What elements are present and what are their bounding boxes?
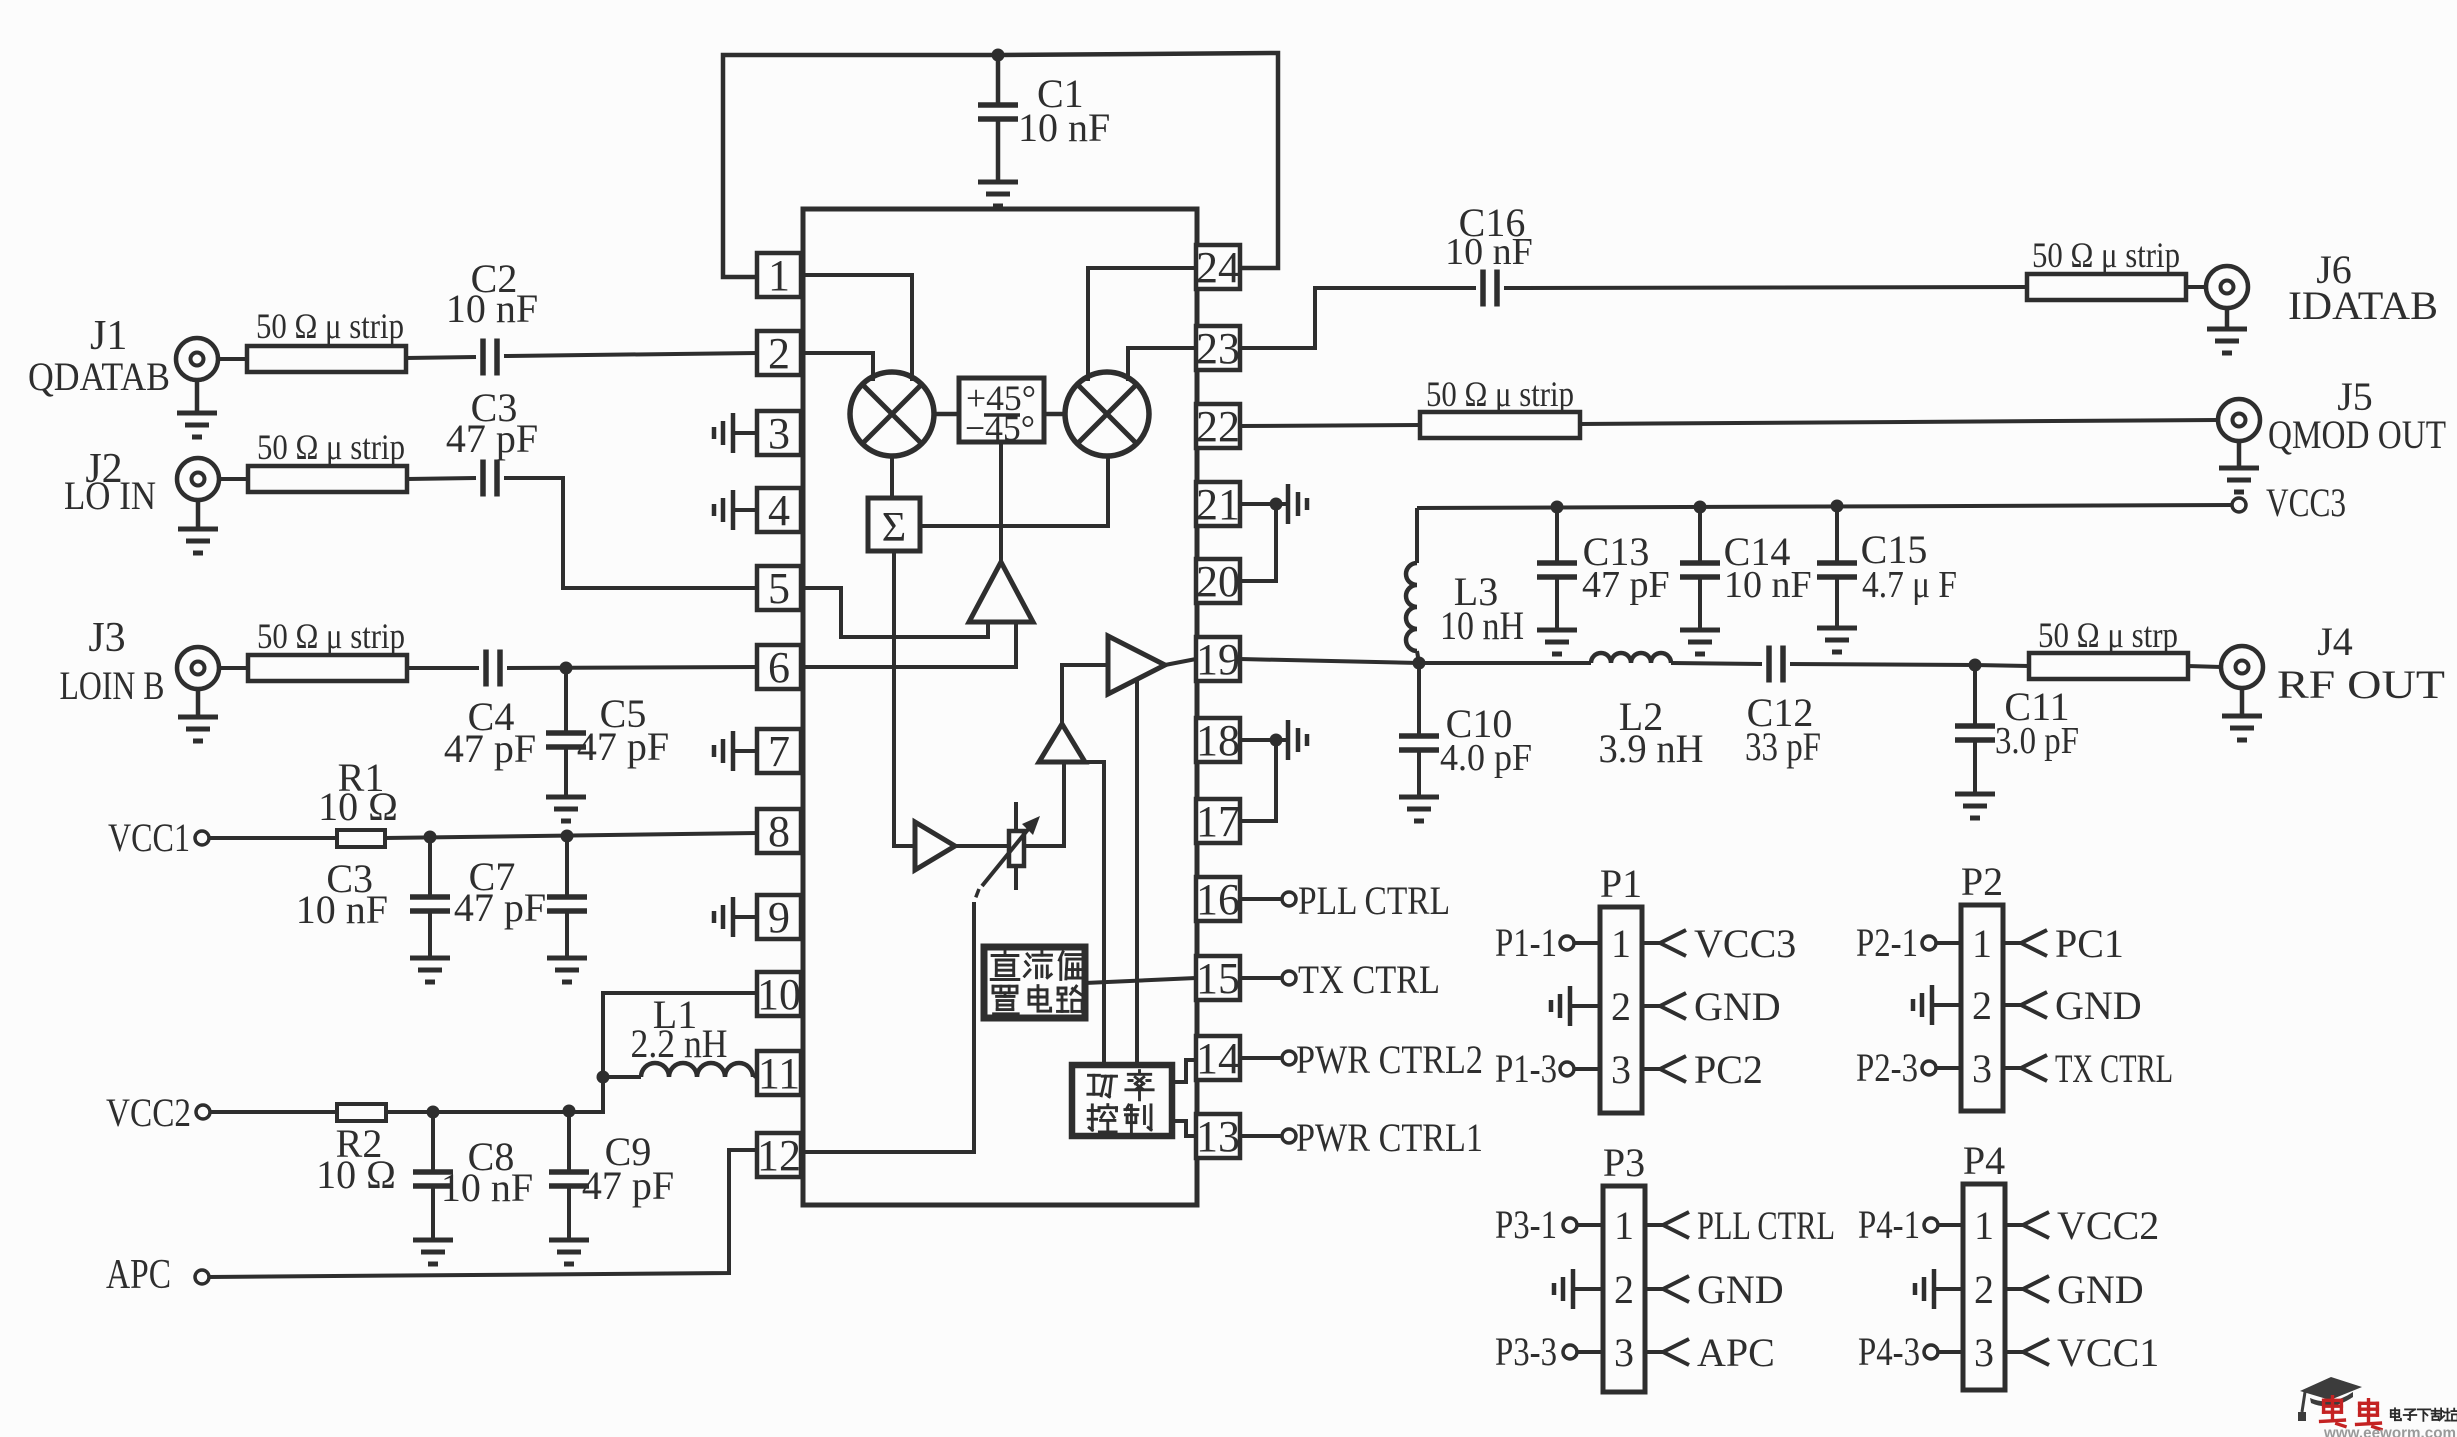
svg-text:50 Ω μ strip: 50 Ω μ strip [257,616,405,656]
svg-text:50 Ω μ strip: 50 Ω μ strip [256,306,404,346]
capacitor C11 [1973,665,1977,726]
svg-text:1: 1 [768,251,790,300]
svg-text:8: 8 [768,807,790,856]
svg-text:2.2 nH: 2.2 nH [631,1021,728,1066]
svg-text:P1-3: P1-3 [1495,1046,1557,1091]
svg-text:GND: GND [2057,1267,2144,1312]
svg-text:2: 2 [1972,983,1992,1028]
capacitor C1 [996,55,1001,105]
wire pin19 to L3/C10 junction [1240,659,1419,663]
wire C4 to pin 6 [507,667,757,668]
node VCC2 [2005,1223,2023,1227]
mixer U1a [850,372,934,456]
wire pin6 to LO amp [801,622,1016,667]
watermark logo eeworm [2300,1377,2362,1400]
node junction C11 [1969,659,1982,672]
pin 24 [1196,245,1240,289]
wire APC to pin 12 [209,1150,757,1277]
capacitor C14 [1698,507,1702,563]
svg-text:P4-3: P4-3 [1858,1329,1920,1374]
node PC2 [1642,1067,1660,1071]
svg-text:GND: GND [1697,1267,1784,1312]
capacitor C13 [1555,507,1559,563]
node junction pin21 [1270,498,1283,511]
wire microstrip to C4 [407,666,479,670]
wire VCC2 to R2 [210,1110,337,1114]
ground under J4 [2240,688,2245,714]
inductor L2 3.9 nH [1591,653,1671,663]
net PLL CTRL terminal [1240,897,1282,901]
capacitor C3 bypass [428,837,432,897]
pin 13 [1196,1114,1240,1158]
wire L2 to C12 [1671,663,1762,664]
microstrip 50ohm J3 line [248,655,407,681]
wire phase shifter to mixer U1b [1044,412,1065,417]
wire C16 to microstrip J6 [1504,287,2027,288]
svg-text:24: 24 [1196,243,1240,292]
svg-text:1: 1 [1974,1203,1994,1248]
node VCC1 [2005,1350,2023,1354]
wire power control to pin 13 [1172,1121,1196,1136]
wire pin23 to mixer U1b [1128,348,1196,381]
svg-text:3.0 pF: 3.0 pF [1995,720,2079,762]
wire sigma down to A4 [894,551,915,846]
node junction VCC1/C3 [424,831,437,844]
svg-text:14: 14 [1196,1034,1240,1083]
wire C12 to C11 junction [1790,664,1975,665]
net PWR CTRL1 terminal [1240,1134,1282,1138]
wire phase shifter to LO amp [999,442,1003,564]
wire junction to L2 [1419,661,1591,665]
svg-text:P3-3: P3-3 [1495,1329,1557,1374]
node GND [2005,1287,2023,1291]
svg-text:QDATAB: QDATAB [28,354,170,399]
svg-text:P3-1: P3-1 [1495,1202,1557,1247]
svg-text:P1-1: P1-1 [1495,920,1557,965]
svg-text:6: 6 [768,643,790,692]
ground under C15 [1817,626,1857,631]
ground under C3 bypass [410,956,450,961]
pin 16 [1196,877,1240,921]
node junction pin18 [1270,734,1283,747]
capacitor C2 [480,339,486,376]
pin 8 [757,809,801,853]
svg-text:50 Ω μ strp: 50 Ω μ strp [2038,615,2178,655]
node junction VCC1/C7 [561,830,574,843]
svg-text:10 nF: 10 nF [296,887,388,932]
svg-text:VCC3: VCC3 [2266,480,2346,525]
svg-text:VCC2: VCC2 [2057,1203,2159,1248]
svg-text:23: 23 [1196,324,1240,373]
pin 12 [757,1133,801,1177]
op-amp A2 output amp [1108,636,1165,694]
ground at P4 pin 2 [1934,1287,1963,1291]
svg-text:18: 18 [1196,716,1240,765]
ground under C8 [413,1238,453,1243]
svg-text:4.0 pF: 4.0 pF [1440,737,1532,779]
microstrip 50ohm J6 line [2027,274,2186,300]
svg-text:15: 15 [1196,954,1240,1003]
pin 5 [757,566,801,610]
svg-text:J3: J3 [88,615,125,661]
pin 2 [757,331,801,375]
ground under J5 [2237,441,2242,466]
svg-text:IDATAB: IDATAB [2288,283,2438,328]
connector J4 RF OUT [2221,646,2263,688]
wire J3 to microstrip [219,666,248,670]
ground at pin 9 [733,915,757,919]
svg-text:GND: GND [2055,983,2142,1028]
svg-text:19: 19 [1196,635,1240,684]
capacitor C5 [564,668,568,733]
ground under C10 [1399,795,1439,800]
svg-text:21: 21 [1196,480,1240,529]
svg-text:10 Ω: 10 Ω [316,1152,396,1197]
wire sigma to mixer U1b bottom [920,456,1108,526]
wire pin1 to mixer U1a [801,275,912,381]
svg-text:22: 22 [1196,402,1240,451]
op-amp A3 driver [1039,724,1085,762]
wire gain control to pin 12 [801,902,974,1152]
microstrip 50ohm J2 line [248,466,407,492]
connector J5 QMOD OUT [2218,399,2260,441]
capacitor C8 [431,1112,435,1172]
svg-text:LO IN: LO IN [64,473,156,518]
svg-text:J1: J1 [90,313,127,359]
svg-text:Σ: Σ [882,505,906,551]
wire pin24 to mixer U1b [1088,268,1196,381]
node GND [1642,1004,1660,1008]
ground under J1 [195,380,200,411]
pin 18 [1196,718,1240,762]
wire top rail to pin 24 [998,53,1278,268]
svg-text:J4: J4 [2317,619,2353,664]
pin 10 [757,972,801,1016]
wire J1 to microstrip [218,357,247,361]
ground at P2 pin 2 [1932,1003,1961,1007]
svg-text:PC1: PC1 [2055,921,2124,966]
svg-text:PLL CTRL: PLL CTRL [1697,1203,1835,1248]
wire microstrip to J5 [1580,420,2217,424]
capacitor C3 series [480,460,486,497]
node junction VCC2/C9 [563,1105,576,1118]
svg-text:47 pF: 47 pF [446,416,538,461]
node PC1 [2003,941,2021,945]
wire pin5 to LO amp [801,588,988,637]
wire A2 to pin 19 [1165,659,1196,665]
svg-text:9: 9 [768,893,790,942]
pin 1 [757,253,801,297]
svg-text:PWR CTRL2: PWR CTRL2 [1296,1037,1483,1082]
wire DC bias to pin 15 [1085,978,1196,983]
wire R2 to L1 junction [386,1077,603,1112]
svg-text:APC: APC [1697,1330,1775,1375]
pin 20 [1196,559,1240,603]
wire pin23 to IDATAB line [1240,288,1476,348]
svg-text:3: 3 [1972,1046,1992,1091]
svg-text:2: 2 [768,329,790,378]
wire power control to pin 14 [1172,1060,1196,1082]
IC U1 body outline [803,209,1197,1205]
wire R1 to pin 8 [385,833,757,838]
svg-text:P4: P4 [1963,1138,2005,1183]
svg-text:47 pF: 47 pF [1582,564,1670,606]
pin 4 [757,488,801,532]
inductor L1 2.2 nH [603,1075,641,1079]
svg-text:VCC1: VCC1 [2057,1330,2159,1375]
wire A4 to attenuator [955,844,1009,848]
pin 23 [1196,326,1240,370]
svg-text:17: 17 [1196,797,1240,846]
net TX CTRL terminal [1240,976,1282,980]
svg-text:P2: P2 [1961,859,2003,904]
svg-text:47 pF: 47 pF [577,724,669,769]
svg-text:1: 1 [1611,921,1631,966]
ground at pin 7 [733,749,757,753]
ground at pin 18 [1276,738,1286,742]
svg-text:7: 7 [768,727,790,776]
ground under C13 [1537,628,1577,633]
wire pin2 to mixer U1a [801,353,873,381]
wire pin21 ground tie [1240,502,1276,506]
svg-text:10 nF: 10 nF [446,286,538,331]
wire C3 to pin 5 [504,478,757,588]
pin 7 [757,729,801,773]
svg-text:RF OUT: RF OUT [2277,662,2445,707]
wire VCC1 to R1 [209,836,337,840]
ground under J3 [196,689,201,715]
wire attenuator to A3 [1024,762,1064,846]
pin 17 [1196,799,1240,843]
wire pin17 to pin18 junction [1240,740,1276,821]
capacitor C9 [567,1111,571,1172]
wire pin20 to pin21 junction [1240,504,1276,581]
connector J6 IDATAB [2206,266,2248,308]
pin 21 [1196,482,1240,526]
svg-text:16: 16 [1196,875,1240,924]
node GND [1645,1287,1663,1291]
ground under C7 [547,956,587,961]
wire VCC3 rail [1417,505,2232,508]
capacitor C10 [1417,663,1421,736]
wire pin18 ground tie [1240,738,1276,742]
svg-text:50 Ω μ strip: 50 Ω μ strip [1426,374,1574,414]
svg-text:10 nF: 10 nF [441,1165,533,1210]
svg-text:P4-1: P4-1 [1858,1202,1920,1247]
phase shifter +45/-45 [959,378,1044,442]
wire A3 base to power control [1085,762,1104,1065]
svg-text:10 nF: 10 nF [1445,231,1533,273]
svg-text:10 nF: 10 nF [1018,105,1110,150]
ground at P3 pin 2 [1573,1287,1603,1291]
svg-text:12: 12 [757,1131,801,1180]
wire C2 to pin 2 [504,353,757,356]
microstrip 50ohm J4 line [2029,653,2188,679]
microstrip 50ohm J5 line [1420,412,1580,438]
svg-text:10 Ω: 10 Ω [318,784,398,829]
svg-text:PC2: PC2 [1694,1047,1763,1092]
svg-text:P1: P1 [1600,861,1642,906]
wire microstrip to J4 [2188,666,2221,667]
svg-text:VCC1: VCC1 [108,815,190,860]
wire microstrip to C3 [407,478,476,479]
svg-text:GND: GND [1694,984,1781,1029]
svg-text:47 pF: 47 pF [444,726,536,771]
svg-text:11: 11 [758,1049,800,1098]
capacitor C4 [483,650,489,687]
node junction top rail / C1 [992,49,1005,62]
svg-text:LOIN B: LOIN B [60,663,165,708]
wire microstrip to J6 [2186,285,2206,289]
svg-text:50 Ω μ strip: 50 Ω μ strip [257,427,405,467]
svg-text:P3: P3 [1603,1140,1645,1185]
svg-text:20: 20 [1196,557,1240,606]
node junction L1 [597,1071,610,1084]
node junction C14 [1694,501,1707,514]
DC bias block (zhi liu pian zhi dian lu) [984,947,1085,1018]
svg-text:QMOD OUT: QMOD OUT [2268,412,2446,457]
svg-text:2: 2 [1614,1267,1634,1312]
wire pin22 to microstrip J5 [1240,425,1420,426]
svg-text:P2-3: P2-3 [1856,1045,1918,1090]
svg-text:2: 2 [1974,1267,1994,1312]
node junction C15 [1831,500,1844,513]
svg-text:4.7 μ F: 4.7 μ F [1862,564,1957,606]
svg-text:10 nF: 10 nF [1724,564,1812,606]
svg-text:13: 13 [1196,1112,1240,1161]
ground under C5 [546,795,586,800]
summer sigma block [868,498,920,551]
pin 22 [1196,404,1240,448]
capacitor C7 [565,836,569,897]
svg-text:PWR CTRL1: PWR CTRL1 [1296,1115,1483,1160]
microstrip 50ohm J1 line [247,346,406,372]
inductor L3 10 nH [1415,508,1419,563]
svg-text:5: 5 [768,564,790,613]
pin 15 [1196,956,1240,1000]
wire pin 10 to L1 junction [603,993,757,1077]
svg-text:3: 3 [1614,1330,1634,1375]
pin 9 [757,895,801,939]
ground under C1 [978,180,1018,185]
capacitor C12 [1766,646,1772,683]
resistor R1 [337,830,385,847]
ground at pin 3 [733,431,757,435]
ground at pin 4 [733,508,757,512]
ground under C9 [549,1238,589,1243]
svg-text:4: 4 [768,486,790,535]
ground under C14 [1680,628,1720,633]
wire pin1 to top rail [723,55,998,277]
svg-text:TX CTRL: TX CTRL [2055,1046,2173,1091]
mixer U1b [1065,372,1149,456]
svg-text:3: 3 [768,409,790,458]
svg-text:33 pF: 33 pF [1745,724,1821,769]
pin 11 [757,1051,801,1095]
ground at pin 21 [1276,502,1286,506]
op-amp A1 LO buffer [969,562,1033,622]
capacitor C16 [1480,270,1486,307]
node GND [2003,1003,2021,1007]
svg-text:3: 3 [1611,1047,1631,1092]
capacitor C15 [1835,506,1839,563]
wire J2 to microstrip [219,477,248,481]
node junction RF line [1413,657,1426,670]
svg-text:www.eeworm.com: www.eeworm.com [2323,1425,2456,1437]
svg-text:2: 2 [1611,984,1631,1029]
wire A2 to power control [1135,679,1139,1065]
svg-text:10: 10 [757,970,801,1019]
node VCC3 [1642,941,1660,945]
svg-text:3.9 nH: 3.9 nH [1599,726,1704,771]
node PLL CTRL [1645,1223,1663,1227]
resistor R2 [337,1104,386,1121]
dashed gain control line [974,889,979,902]
node junction C13 [1551,501,1564,514]
variable attenuator [1014,802,1018,890]
node junction VCC2/C8 [427,1106,440,1119]
ground under J6 [2225,308,2230,327]
wire A3 to A2 input [1062,665,1108,724]
svg-text:47 pF: 47 pF [454,885,546,930]
power control block (gong lu kong zhi) [1072,1065,1172,1136]
node APC [1645,1350,1663,1354]
ground under C11 [1955,792,1995,797]
svg-text:50 Ω μ strip: 50 Ω μ strip [2032,235,2180,275]
wire mixer U1a to phase shifter [934,412,959,417]
svg-text:VCC3: VCC3 [1694,921,1796,966]
svg-text:3: 3 [1974,1330,1994,1375]
svg-text:P2-1: P2-1 [1856,920,1918,965]
ground at P1 pin 2 [1570,1004,1600,1008]
svg-text:APC: APC [106,1252,171,1298]
svg-text:VCC2: VCC2 [106,1090,191,1135]
svg-text:47 pF: 47 pF [582,1163,674,1208]
pin 3 [757,411,801,455]
node junction J3 line / C5 [560,662,573,675]
svg-text:1: 1 [1614,1203,1634,1248]
svg-text:10 nH: 10 nH [1440,603,1524,648]
net VCC3 terminal [2232,498,2246,512]
pin 19 [1196,637,1240,681]
svg-text:PLL CTRL: PLL CTRL [1298,878,1450,923]
ground under J2 [196,500,201,527]
wire junction to microstrip J4 [1975,665,2029,666]
svg-text:TX CTRL: TX CTRL [1298,957,1440,1002]
pin 6 [757,645,801,689]
net PWR CTRL2 terminal [1240,1056,1282,1060]
op-amp A4 IF buffer [915,822,955,870]
wire mixer U1a to sigma [890,456,894,498]
svg-text:1: 1 [1972,921,1992,966]
node TX CTRL [2003,1066,2021,1070]
wire microstrip to C2 [406,357,476,358]
pin 14 [1196,1036,1240,1080]
